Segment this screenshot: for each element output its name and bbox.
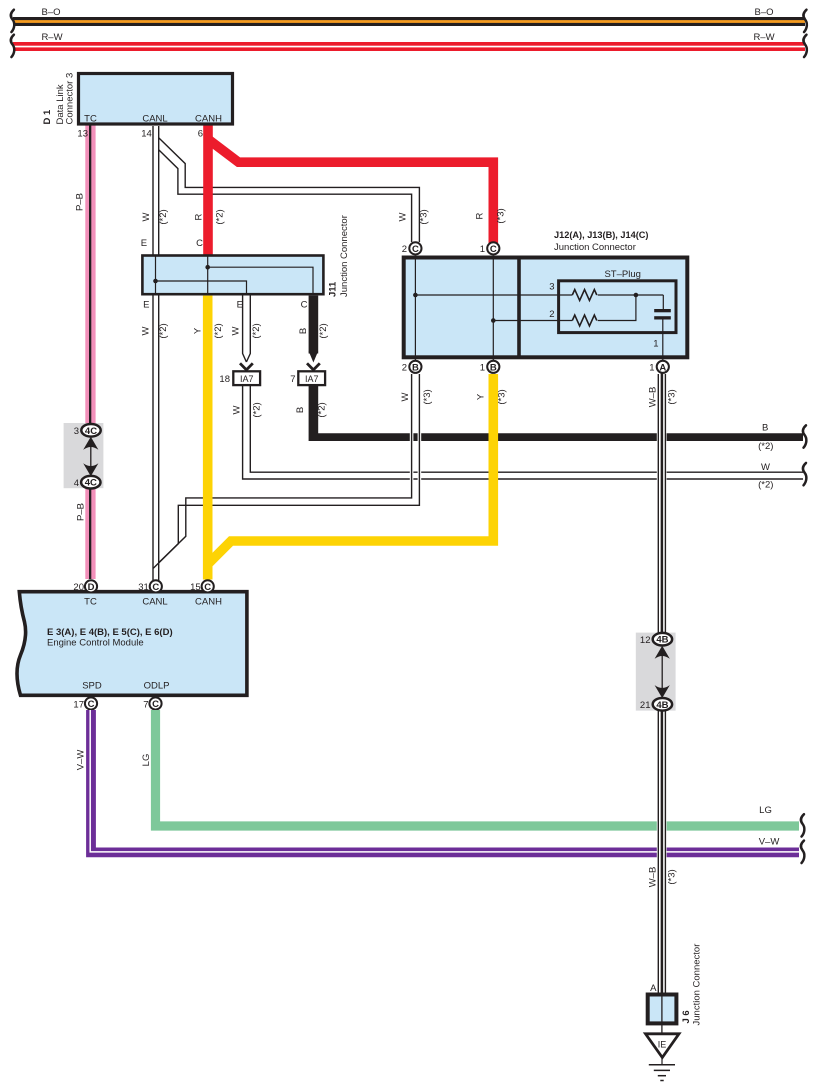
- svg-text:B–O: B–O: [41, 7, 60, 18]
- wire W (*3) J12 pin 2B to ECM CANL: [153, 374, 433, 568]
- wire J12 internal 1C to 1B: [492, 258, 494, 361]
- svg-text:1: 1: [480, 244, 485, 255]
- svg-text:13: 13: [77, 129, 88, 140]
- svg-text:(*3): (*3): [666, 869, 677, 884]
- svg-text:E: E: [143, 300, 149, 311]
- wire V-W SPD to right edge: [75, 710, 804, 863]
- svg-text:C: C: [196, 238, 203, 249]
- svg-text:W–B: W–B: [647, 867, 658, 888]
- junction connector J12(A) J13(B) J14(C): [404, 230, 688, 361]
- wire R (*3) branch CANH to J12 pin 1C: [209, 140, 507, 244]
- pin 1B of J12: [480, 361, 500, 374]
- svg-text:(*2): (*2): [318, 323, 329, 338]
- svg-text:7: 7: [143, 700, 148, 711]
- svg-text:14: 14: [141, 129, 152, 140]
- svg-text:C: C: [490, 244, 497, 255]
- svg-text:E 3(A), E 4(B), E 5(C), E 6(D): E 3(A), E 4(B), E 5(C), E 6(D): [47, 627, 173, 638]
- svg-text:21: 21: [640, 700, 651, 711]
- engine control module E3 E4 E5 E6: [17, 592, 247, 696]
- node ST-plug junction: [634, 293, 639, 298]
- svg-text:W: W: [397, 212, 408, 221]
- node J12 1C junction: [491, 318, 496, 323]
- svg-text:(*2): (*2): [251, 323, 262, 338]
- svg-text:20: 20: [73, 582, 84, 593]
- wire W-B (*3) J12 pin 1A to J6: [647, 374, 677, 995]
- svg-text:R–W: R–W: [753, 32, 774, 43]
- svg-text:B: B: [490, 362, 497, 373]
- svg-text:V–W: V–W: [75, 750, 86, 771]
- svg-text:(*3): (*3): [496, 389, 507, 404]
- svg-text:4B: 4B: [656, 635, 668, 646]
- svg-text:V–W: V–W: [759, 837, 780, 848]
- pin 20 D of ECM: [73, 580, 97, 593]
- svg-text:C: C: [88, 699, 95, 710]
- pin 2C of J12: [402, 242, 422, 255]
- svg-text:ST–Plug: ST–Plug: [604, 269, 640, 280]
- svg-text:CANL: CANL: [142, 114, 167, 125]
- svg-text:W: W: [231, 405, 242, 414]
- pin 4 of 4C: [74, 476, 101, 489]
- svg-text:2: 2: [549, 309, 554, 320]
- svg-text:18: 18: [219, 374, 230, 385]
- svg-text:IA7: IA7: [305, 374, 319, 384]
- svg-text:Junction Connector: Junction Connector: [692, 944, 703, 1026]
- wire W (*2) CANL D1 to ECM: [140, 126, 169, 580]
- pin 3 of 4C: [74, 424, 101, 437]
- svg-text:17: 17: [73, 700, 84, 711]
- ground IE: [646, 1023, 680, 1080]
- svg-text:(*2): (*2): [213, 323, 224, 338]
- wire J12 internal to resistor 3: [415, 294, 572, 296]
- svg-text:(*2): (*2): [214, 209, 225, 224]
- svg-text:(*2): (*2): [158, 209, 169, 224]
- svg-text:(*2): (*2): [251, 402, 262, 417]
- node J11 CANH junction: [205, 265, 210, 270]
- svg-text:ODLP: ODLP: [144, 681, 170, 692]
- svg-text:LG: LG: [141, 754, 152, 767]
- svg-text:3: 3: [74, 426, 79, 437]
- resistor 2: [572, 315, 597, 326]
- svg-text:Junction Connector: Junction Connector: [339, 215, 350, 297]
- wire W (*2) bus IA7 to right edge: [231, 386, 806, 491]
- svg-text:R: R: [474, 212, 485, 219]
- wire W (*3) branch CANL to J12 pin 2C: [159, 138, 430, 242]
- svg-text:IE: IE: [658, 1040, 667, 1050]
- svg-text:W–B: W–B: [647, 387, 658, 408]
- node J12 2C junction: [413, 293, 418, 298]
- pin 17 C of ECM: [73, 697, 97, 710]
- svg-text:(*3): (*3): [666, 389, 677, 404]
- wire resistor 3 to node: [598, 294, 664, 296]
- connector D1 Data Link Connector 3: [42, 73, 233, 140]
- svg-text:W: W: [140, 326, 151, 335]
- svg-text:R: R: [194, 213, 205, 220]
- svg-text:J12(A), J13(B), J14(C): J12(A), J13(B), J14(C): [554, 230, 648, 240]
- svg-text:1: 1: [649, 362, 654, 373]
- svg-text:W: W: [761, 462, 770, 473]
- svg-text:LG: LG: [759, 805, 772, 816]
- pin 1C of J12: [480, 242, 500, 255]
- svg-text:12: 12: [640, 635, 651, 646]
- svg-text:D: D: [88, 582, 95, 593]
- connector IA7 pin 18: [219, 363, 260, 385]
- wire J12 internal to resistor 2: [493, 320, 572, 322]
- svg-text:B: B: [295, 407, 306, 413]
- capacitor ST-plug: [662, 295, 664, 309]
- svg-text:4B: 4B: [656, 700, 668, 711]
- svg-text:D 1: D 1: [42, 109, 53, 125]
- svg-text:TC: TC: [84, 114, 97, 125]
- svg-text:4: 4: [74, 478, 79, 489]
- pin 15 C of ECM: [190, 580, 214, 593]
- svg-text:1: 1: [480, 362, 485, 373]
- svg-text:Y: Y: [192, 327, 203, 334]
- wire R-W bus: [11, 32, 807, 57]
- svg-text:B: B: [412, 362, 419, 373]
- junction connector J11: [142, 215, 350, 297]
- wire Y (*2) J11 to ECM CANH: [192, 296, 224, 580]
- node J11 CANL junction: [153, 279, 158, 284]
- wire P-B TC to ECM: [74, 125, 95, 579]
- resistor 3: [572, 290, 597, 301]
- svg-text:CANH: CANH: [195, 114, 222, 125]
- svg-text:B–O: B–O: [754, 7, 773, 18]
- pin 21 of 4B: [640, 698, 672, 711]
- pin 12 of 4B: [640, 633, 672, 646]
- svg-text:4C: 4C: [85, 426, 97, 437]
- svg-text:1: 1: [653, 339, 658, 350]
- junction connector J6: [648, 944, 703, 1026]
- wire B (*2) bus IA7 to right edge: [309, 386, 807, 452]
- svg-text:31: 31: [138, 582, 149, 593]
- svg-text:2: 2: [402, 362, 407, 373]
- svg-text:J11: J11: [328, 281, 339, 297]
- svg-text:C: C: [152, 582, 159, 593]
- svg-text:(*3): (*3): [418, 209, 429, 224]
- svg-text:Junction Connector: Junction Connector: [554, 242, 636, 253]
- svg-text:(*2): (*2): [758, 441, 773, 452]
- svg-text:Engine Control Module: Engine Control Module: [47, 638, 144, 649]
- inline connector arrows 4B: [655, 646, 670, 698]
- svg-text:W: W: [141, 212, 152, 221]
- svg-text:(*2): (*2): [758, 479, 773, 490]
- wire B-O bus: [11, 7, 807, 32]
- svg-text:B: B: [298, 328, 309, 334]
- connector block 4B: [636, 633, 676, 711]
- svg-text:A: A: [659, 362, 666, 373]
- pin 1A of J12: [649, 361, 669, 374]
- wire R (*2) CANH D1 to J11: [194, 125, 226, 256]
- svg-text:B: B: [762, 422, 768, 433]
- svg-text:(*2): (*2): [158, 323, 169, 338]
- wire Y (*3) J12 pin 1B to CANH: [207, 374, 508, 566]
- svg-text:J 6: J 6: [681, 1010, 692, 1023]
- svg-text:C: C: [204, 582, 211, 593]
- svg-text:E: E: [237, 300, 243, 311]
- svg-text:4C: 4C: [85, 478, 97, 489]
- svg-text:7: 7: [290, 374, 295, 385]
- connector block 4C: [64, 423, 104, 488]
- pin 7 C of ECM: [143, 697, 161, 710]
- svg-text:Y: Y: [475, 393, 486, 400]
- svg-text:3: 3: [549, 282, 554, 293]
- wire resistor 2 to node: [598, 295, 636, 321]
- wire J12 internal divider: [517, 256, 521, 359]
- svg-text:R–W: R–W: [41, 32, 62, 43]
- ST-Plug: [549, 269, 676, 360]
- svg-text:CANH: CANH: [195, 597, 222, 608]
- inline connector arrows 4C: [83, 437, 98, 476]
- svg-text:TC: TC: [84, 597, 97, 608]
- svg-text:(*3): (*3): [495, 208, 506, 223]
- svg-text:2: 2: [402, 244, 407, 255]
- wire B (*2) J11 to IA7 pin 7: [298, 296, 329, 363]
- svg-text:IA7: IA7: [240, 374, 254, 384]
- wire W (*2) J11 to IA7 pin 18: [230, 294, 262, 362]
- pin 31 C of ECM: [138, 580, 162, 593]
- svg-text:(*3): (*3): [422, 389, 433, 404]
- wire LG ODLP to right edge: [141, 710, 804, 837]
- svg-text:Connector 3: Connector 3: [65, 73, 76, 125]
- svg-text:P–B: P–B: [75, 503, 86, 521]
- connector IA7 pin 7: [290, 363, 325, 385]
- svg-text:15: 15: [190, 582, 201, 593]
- svg-text:P–B: P–B: [74, 193, 85, 211]
- svg-text:A: A: [650, 983, 657, 994]
- svg-text:W: W: [230, 326, 241, 335]
- svg-text:E: E: [141, 238, 147, 249]
- svg-text:C: C: [152, 699, 159, 710]
- svg-text:C: C: [412, 244, 419, 255]
- svg-text:W: W: [400, 392, 411, 401]
- svg-text:6: 6: [198, 129, 203, 140]
- svg-text:SPD: SPD: [82, 681, 102, 692]
- wire J12 internal 2C to 2B: [414, 258, 416, 361]
- svg-text:CANL: CANL: [142, 597, 167, 608]
- svg-text:C: C: [301, 300, 308, 311]
- pin 2B of J12: [402, 361, 422, 374]
